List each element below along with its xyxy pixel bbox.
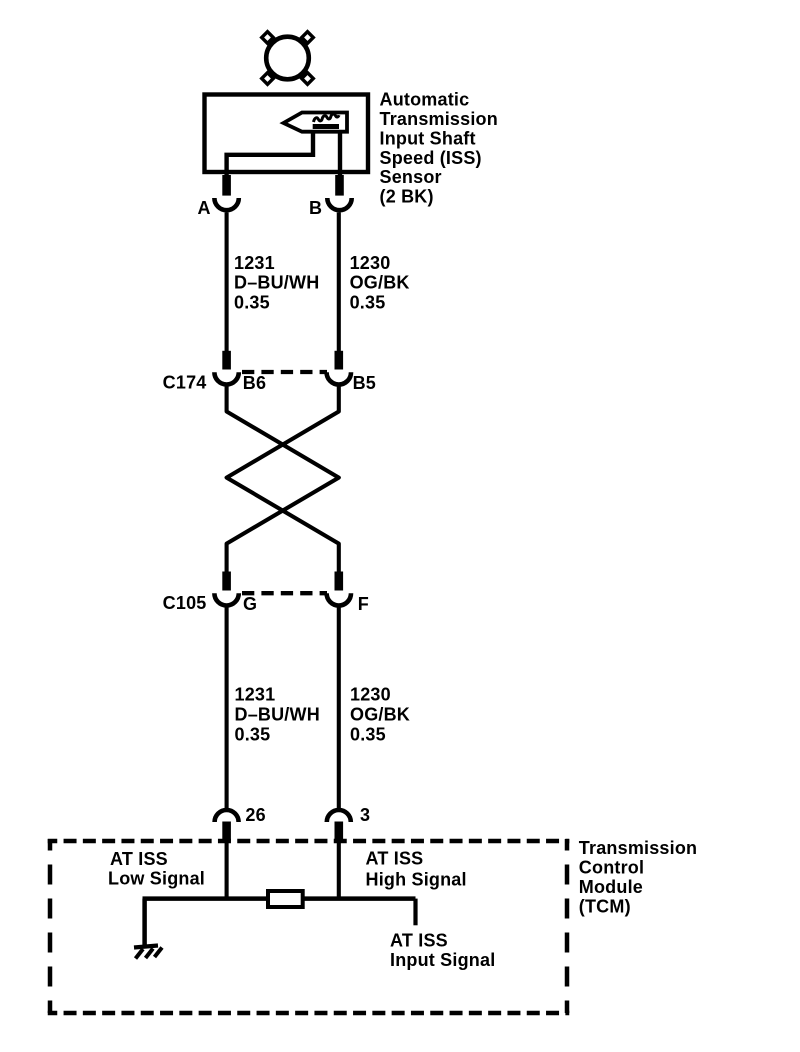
svg-text:C105: C105 (163, 593, 207, 613)
sensor rotor icon diamond top-left (262, 32, 274, 44)
svg-text:0.35: 0.35 (350, 724, 386, 744)
svg-text:Control: Control (579, 858, 644, 878)
pin A stub (222, 175, 231, 196)
svg-text:D–BU/WH: D–BU/WH (234, 273, 319, 293)
svg-text:B6: B6 (243, 373, 266, 393)
sensor rotor icon diamond bottom-right (302, 73, 314, 85)
svg-text:Transmission: Transmission (380, 109, 498, 129)
pin B terminal cup (327, 198, 351, 210)
wire from coil to pin B (338, 132, 342, 176)
svg-text:Transmission: Transmission (579, 838, 697, 858)
coil squiggle (314, 114, 340, 122)
svg-text:3: 3 (360, 805, 370, 825)
wire pin 3 into TCM (337, 842, 341, 899)
svg-text:0.35: 0.35 (235, 724, 271, 744)
wire F to TCM pin 3 (337, 607, 341, 809)
sensor box outline (205, 95, 369, 173)
magnet bar (313, 124, 339, 129)
TCM pin 3 stub (334, 822, 343, 842)
ground hatch 3 (155, 948, 163, 958)
svg-text:Automatic: Automatic (380, 90, 470, 110)
svg-text:(TCM): (TCM) (579, 897, 631, 917)
svg-text:(2 BK): (2 BK) (380, 187, 434, 207)
sensor rotor icon circle (266, 37, 309, 80)
ground hatch 1 (136, 949, 144, 959)
svg-text:Module: Module (579, 877, 643, 897)
TCM internal horizontal wire (143, 896, 416, 901)
svg-text:C174: C174 (163, 372, 207, 392)
wire G to TCM pin 26 (225, 607, 229, 809)
svg-text:B: B (309, 198, 322, 218)
TCM pin 26 terminal cap (215, 810, 239, 822)
connector C174 pin B6 cup (214, 372, 238, 384)
connector C105 pin G stub (222, 572, 231, 591)
wire A to C174 (225, 213, 229, 352)
svg-text:B5: B5 (353, 373, 376, 393)
connector C105 dashed mating line (242, 591, 327, 595)
svg-text:A: A (198, 198, 211, 218)
pickup coil arrow symbol (284, 113, 348, 132)
wire B to C174 (337, 213, 341, 352)
TCM pin 26 stub (222, 822, 231, 842)
TCM dashed box left border (48, 839, 53, 1013)
TCM dashed box top border (48, 839, 570, 844)
pin B stub (335, 175, 344, 196)
svg-text:Sensor: Sensor (380, 167, 442, 187)
svg-text:OG/BK: OG/BK (350, 704, 410, 724)
svg-text:AT ISS: AT ISS (110, 849, 168, 869)
sensor rotor icon diamond bottom-left (262, 73, 274, 85)
wire AT ISS input signal branch (413, 899, 417, 926)
TCM pin 3 terminal cap (327, 810, 351, 822)
pin A terminal cup (214, 198, 238, 210)
svg-text:0.35: 0.35 (350, 292, 386, 312)
connector C105 pin F stub (334, 572, 343, 591)
svg-text:AT ISS: AT ISS (390, 930, 448, 950)
svg-text:1230: 1230 (350, 253, 391, 273)
wire pin 26 into TCM (225, 842, 229, 899)
svg-text:26: 26 (245, 805, 265, 825)
ground symbol bar (134, 946, 158, 948)
svg-text:Low Signal: Low Signal (108, 869, 205, 889)
connector C174 pin B5 stub (334, 351, 343, 370)
svg-text:OG/BK: OG/BK (350, 273, 410, 293)
wire from coil to pin A (227, 132, 313, 176)
connector C105 pin F cup (327, 593, 351, 605)
wire to ground (142, 899, 147, 946)
svg-text:Speed (ISS): Speed (ISS) (380, 148, 482, 168)
svg-text:AT ISS: AT ISS (366, 849, 424, 869)
connector C174 pin B6 stub (222, 351, 231, 370)
twisted pair wire left (B6 to G) (227, 385, 339, 572)
svg-text:High Signal: High Signal (366, 870, 467, 890)
svg-text:1230: 1230 (350, 685, 391, 705)
connector C105 pin G cup (214, 593, 238, 605)
svg-text:1231: 1231 (235, 685, 276, 705)
TCM dashed box bottom border (48, 1011, 570, 1016)
sensor rotor icon diamond top-right (302, 32, 314, 44)
TCM dashed box right border (565, 839, 570, 1013)
svg-text:1231: 1231 (234, 253, 275, 273)
ground hatch 2 (146, 949, 154, 959)
twisted pair wire right (B5 to F) (227, 385, 339, 572)
svg-text:G: G (243, 594, 257, 614)
connector C174 pin B5 cup (327, 372, 351, 384)
internal resistor (268, 891, 303, 907)
svg-text:F: F (358, 594, 369, 614)
svg-text:Input Signal: Input Signal (390, 950, 495, 970)
svg-text:Input Shaft: Input Shaft (380, 128, 476, 148)
svg-text:0.35: 0.35 (234, 292, 270, 312)
connector C174 dashed mating line (242, 370, 327, 374)
svg-text:D–BU/WH: D–BU/WH (235, 704, 320, 724)
